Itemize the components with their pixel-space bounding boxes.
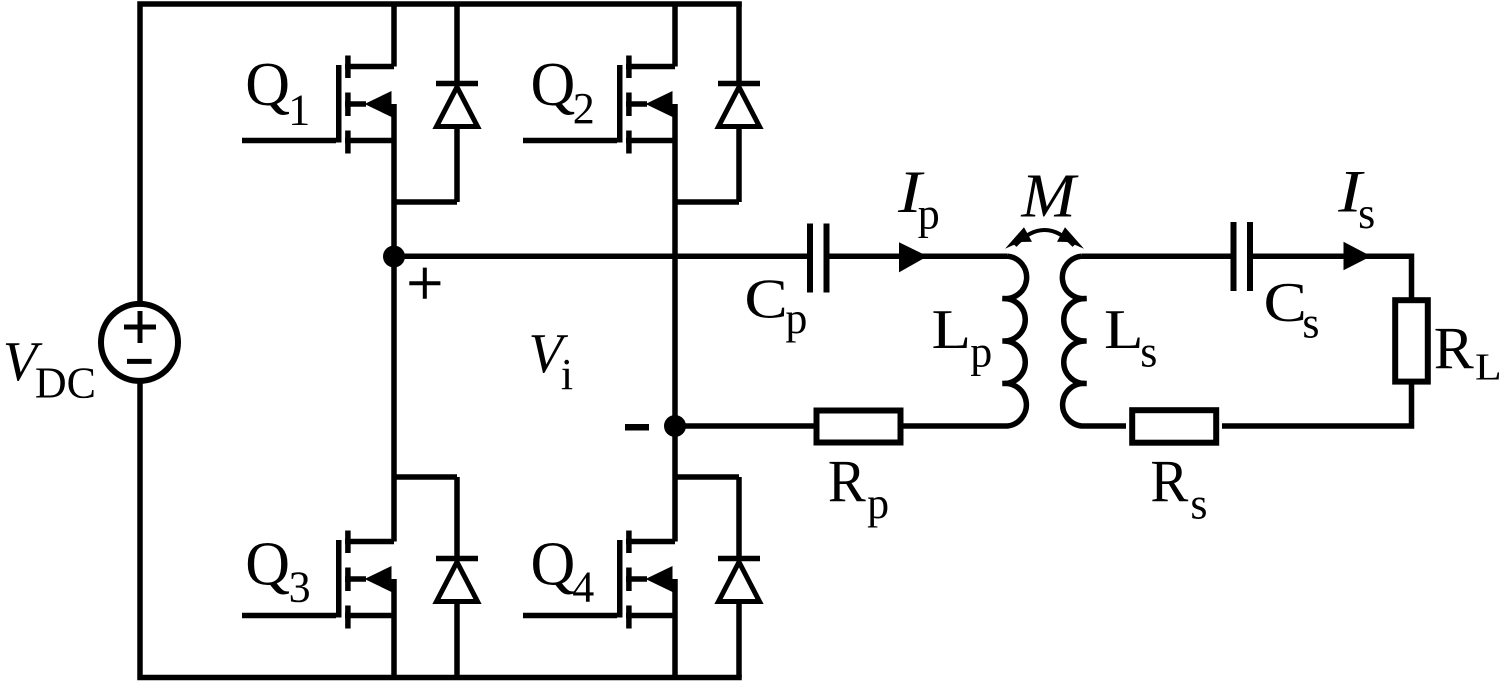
- svg-text:p: p: [867, 479, 889, 528]
- svg-text:C: C: [1264, 272, 1307, 334]
- svg-text:Q: Q: [245, 531, 290, 599]
- svg-text:2: 2: [573, 84, 595, 133]
- svg-text:Q: Q: [245, 51, 290, 119]
- svg-text:s: s: [1140, 328, 1157, 377]
- svg-text:Q: Q: [531, 531, 576, 599]
- svg-text:Q: Q: [531, 51, 576, 119]
- svg-text:p: p: [970, 328, 992, 377]
- svg-text:i: i: [561, 350, 573, 399]
- svg-text:C: C: [744, 269, 787, 331]
- svg-text:s: s: [1358, 189, 1375, 238]
- svg-text:1: 1: [288, 85, 310, 134]
- svg-text:s: s: [1190, 479, 1207, 528]
- svg-text:p: p: [785, 294, 807, 343]
- svg-text:p: p: [918, 190, 940, 239]
- svg-text:4: 4: [572, 563, 594, 612]
- svg-text:DC: DC: [35, 359, 96, 408]
- svg-text:L: L: [1475, 346, 1499, 388]
- svg-text:R: R: [1434, 316, 1474, 382]
- svg-text:s: s: [1302, 299, 1319, 348]
- svg-text:L: L: [932, 299, 972, 361]
- svg-text:R: R: [828, 449, 866, 515]
- svg-text:L: L: [1104, 299, 1144, 361]
- svg-text:3: 3: [289, 562, 311, 611]
- svg-text:R: R: [1150, 449, 1188, 515]
- svg-text:M: M: [1020, 163, 1079, 231]
